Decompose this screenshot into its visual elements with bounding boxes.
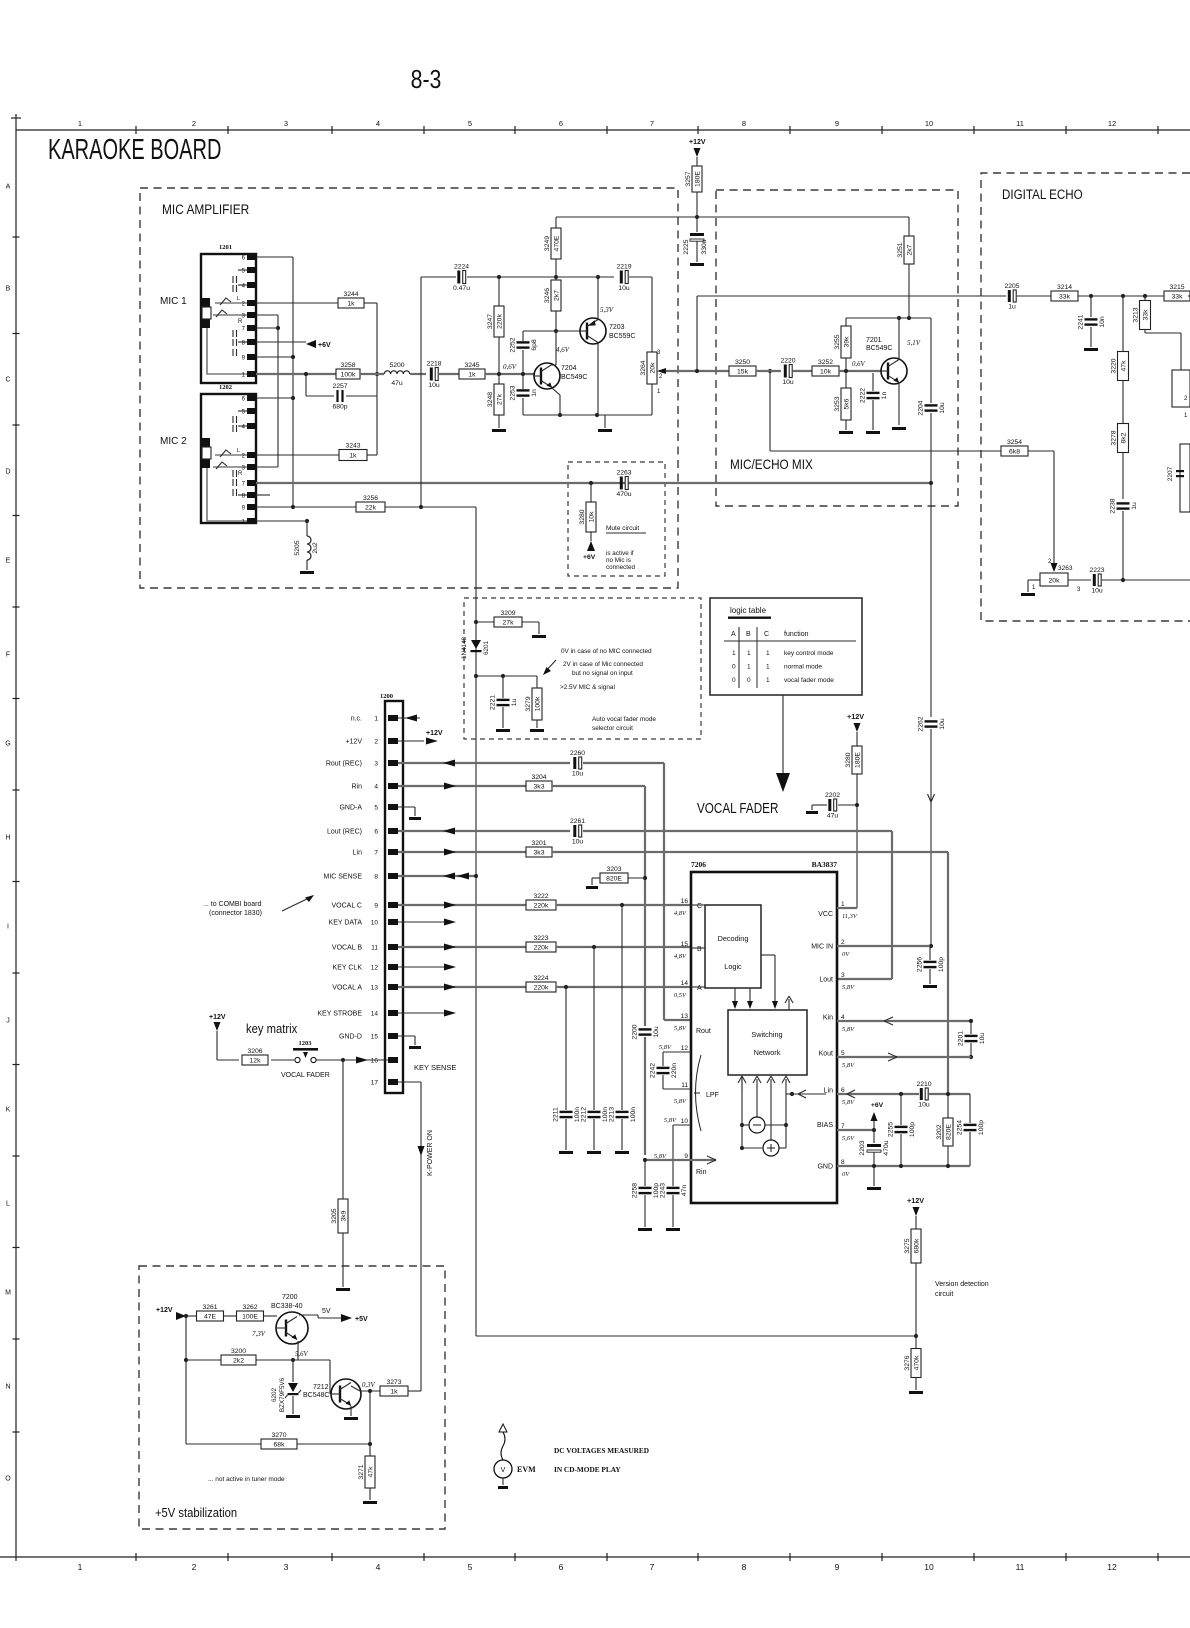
svg-text:M: M <box>5 1290 11 1297</box>
svg-text:E: E <box>6 558 11 565</box>
svg-text:1: 1 <box>766 650 770 657</box>
svg-text:2u2: 2u2 <box>312 542 319 554</box>
svg-text:I: I <box>7 924 9 931</box>
svg-text:9: 9 <box>835 1562 840 1572</box>
svg-text:Rout: Rout <box>696 1028 711 1035</box>
svg-text:V: V <box>501 1467 506 1474</box>
svg-text:3202: 3202 <box>936 1124 943 1139</box>
svg-text:BIAS: BIAS <box>817 1122 833 1129</box>
svg-text:220k: 220k <box>534 945 549 952</box>
svg-text:8: 8 <box>742 119 746 128</box>
svg-text:3275: 3275 <box>904 1238 911 1253</box>
svg-text:2201: 2201 <box>958 1031 965 1046</box>
svg-text:L: L <box>237 296 240 302</box>
svg-text:2253: 2253 <box>510 385 517 400</box>
svg-text:+6V: +6V <box>871 1102 884 1109</box>
svg-text:11: 11 <box>681 1082 688 1089</box>
svg-text:3244: 3244 <box>343 291 358 298</box>
svg-text:+12V: +12V <box>689 139 706 146</box>
svg-text:1u: 1u <box>1008 304 1016 311</box>
svg-text:9: 9 <box>835 119 839 128</box>
svg-text:9: 9 <box>242 356 246 362</box>
svg-text:10n: 10n <box>1099 316 1106 328</box>
svg-text:vocal fader mode: vocal fader mode <box>784 677 834 684</box>
svg-text:180E: 180E <box>854 752 861 768</box>
svg-text:6: 6 <box>559 119 563 128</box>
svg-text:0: 0 <box>732 677 736 684</box>
svg-text:KEY CLK: KEY CLK <box>333 965 363 972</box>
svg-text:6: 6 <box>242 397 246 403</box>
svg-text:7204: 7204 <box>561 365 577 372</box>
svg-text:2241: 2241 <box>1078 314 1085 329</box>
svg-text:1k: 1k <box>347 301 355 308</box>
svg-text:3273: 3273 <box>386 1379 401 1386</box>
svg-text:is active if: is active if <box>606 550 634 557</box>
svg-text:KEY SENSE: KEY SENSE <box>414 1063 456 1072</box>
svg-text:47k: 47k <box>1120 360 1127 372</box>
svg-text:3224: 3224 <box>533 975 548 982</box>
svg-text:17: 17 <box>371 1080 379 1087</box>
svg-text:6: 6 <box>242 256 246 262</box>
svg-text:10u: 10u <box>572 839 584 846</box>
svg-text:5: 5 <box>468 119 472 128</box>
svg-text:3204: 3204 <box>531 774 546 781</box>
svg-text:5,6V: 5,6V <box>295 1351 308 1358</box>
svg-text:9: 9 <box>242 506 246 512</box>
svg-text:3206: 3206 <box>247 1048 262 1055</box>
svg-text:1k: 1k <box>468 372 476 379</box>
svg-text:2242: 2242 <box>650 1063 657 1078</box>
svg-text:Rin: Rin <box>696 1169 707 1176</box>
svg-text:MIC AMPLIFIER: MIC AMPLIFIER <box>162 201 249 217</box>
svg-text:0V: 0V <box>842 951 850 958</box>
svg-text:7: 7 <box>242 482 246 488</box>
svg-text:2220: 2220 <box>780 358 795 365</box>
svg-text:1: 1 <box>747 664 751 671</box>
svg-text:+12V: +12V <box>847 712 864 721</box>
svg-text:1: 1 <box>1184 413 1188 419</box>
svg-text:68k: 68k <box>274 1442 286 1449</box>
svg-text:1u: 1u <box>1131 502 1138 510</box>
svg-text:2221: 2221 <box>490 695 497 710</box>
svg-text:2224: 2224 <box>454 264 469 271</box>
svg-text:15: 15 <box>681 941 689 948</box>
svg-text:100E: 100E <box>242 1314 258 1321</box>
svg-text:2: 2 <box>192 1562 197 1572</box>
svg-text:1k: 1k <box>390 1389 398 1396</box>
svg-text:0: 0 <box>732 664 736 671</box>
svg-text:BA3837: BA3837 <box>812 860 838 869</box>
svg-text:Kout: Kout <box>819 1051 833 1058</box>
svg-text:2213: 2213 <box>609 1107 616 1122</box>
svg-text:... not active in tuner mode: ... not active in tuner mode <box>208 1476 285 1483</box>
svg-text:+12V: +12V <box>345 739 362 746</box>
svg-text:470u: 470u <box>616 491 631 498</box>
svg-text:5,8V: 5,8V <box>664 1117 677 1124</box>
svg-text:K: K <box>6 1107 11 1114</box>
svg-text:11: 11 <box>1016 1562 1025 1572</box>
svg-text:3243: 3243 <box>345 443 360 450</box>
svg-text:8: 8 <box>374 874 378 881</box>
svg-text:VOCAL C: VOCAL C <box>332 903 362 910</box>
svg-text:+12V: +12V <box>907 1196 924 1205</box>
svg-text:2255: 2255 <box>888 1122 895 1137</box>
svg-text:0: 0 <box>747 677 751 684</box>
svg-text:2262: 2262 <box>918 716 925 731</box>
svg-text:Auto vocal fader mode: Auto vocal fader mode <box>592 716 656 723</box>
svg-text:6: 6 <box>559 1562 564 1572</box>
svg-text:3k3: 3k3 <box>534 850 545 857</box>
svg-text:470u: 470u <box>883 1140 890 1155</box>
svg-text:33k: 33k <box>1059 294 1071 301</box>
svg-text:1200: 1200 <box>380 693 393 700</box>
svg-text:2k2: 2k2 <box>233 1358 244 1365</box>
svg-text:2204: 2204 <box>918 400 925 415</box>
svg-text:12: 12 <box>681 1045 689 1052</box>
svg-text:BZX79F5V6: BZX79F5V6 <box>279 1377 286 1412</box>
svg-text:3: 3 <box>284 119 288 128</box>
svg-text:3k3: 3k3 <box>534 784 545 791</box>
svg-text:5: 5 <box>374 805 378 812</box>
svg-text:Kin: Kin <box>823 1015 833 1022</box>
svg-text:1: 1 <box>766 664 770 671</box>
svg-text:EVM: EVM <box>517 1465 536 1474</box>
svg-text:3279: 3279 <box>525 696 532 711</box>
svg-text:220k: 220k <box>496 314 503 329</box>
svg-text:100p: 100p <box>978 1120 985 1135</box>
svg-text:5,1V: 5,1V <box>907 339 921 347</box>
svg-text:2218: 2218 <box>426 361 441 368</box>
svg-text:10u: 10u <box>653 1026 660 1038</box>
svg-text:BC549C: BC549C <box>561 374 587 381</box>
svg-text:3270: 3270 <box>271 1432 286 1439</box>
svg-text:4,6V: 4,6V <box>556 346 570 354</box>
svg-text:470E: 470E <box>553 235 560 251</box>
svg-text:4: 4 <box>376 119 380 128</box>
svg-text:4: 4 <box>242 284 246 290</box>
svg-text:2k7: 2k7 <box>553 290 560 301</box>
svg-text:3247: 3247 <box>487 314 494 329</box>
svg-text:GND-A: GND-A <box>339 805 362 812</box>
svg-text:10u: 10u <box>428 382 440 389</box>
svg-text:+6V: +6V <box>583 554 596 561</box>
svg-text:10u: 10u <box>939 402 946 414</box>
svg-text:7: 7 <box>242 327 246 333</box>
svg-text:12: 12 <box>1108 119 1116 128</box>
svg-text:logic table: logic table <box>730 606 767 615</box>
svg-text:7200: 7200 <box>282 1294 298 1301</box>
svg-text:VOCAL FADER: VOCAL FADER <box>281 1072 330 1079</box>
svg-text:BC559C: BC559C <box>609 333 635 340</box>
svg-text:GND-D: GND-D <box>339 1034 362 1041</box>
svg-text:5205: 5205 <box>294 540 301 555</box>
svg-text:14: 14 <box>681 980 689 987</box>
svg-text:+5V: +5V <box>355 1316 368 1323</box>
svg-text:2210: 2210 <box>916 1081 931 1088</box>
svg-text:8k2: 8k2 <box>1120 432 1127 443</box>
svg-text:2225: 2225 <box>683 239 690 254</box>
svg-text:22k: 22k <box>365 505 377 512</box>
svg-text:1: 1 <box>1032 585 1036 591</box>
svg-text:27k: 27k <box>503 620 515 627</box>
svg-text:680k: 680k <box>913 1238 920 1253</box>
svg-text:6202: 6202 <box>271 1388 278 1403</box>
svg-text:IN CD-MODE PLAY: IN CD-MODE PLAY <box>554 1465 621 1474</box>
svg-text:2: 2 <box>192 119 196 128</box>
svg-text:C: C <box>764 631 769 638</box>
svg-text:47E: 47E <box>204 1314 217 1321</box>
svg-text:A: A <box>697 985 702 992</box>
svg-text:10k: 10k <box>588 511 595 523</box>
svg-text:10u: 10u <box>1091 588 1103 595</box>
svg-text:33k: 33k <box>1172 294 1184 301</box>
svg-text:680p: 680p <box>332 404 347 411</box>
svg-text:3246: 3246 <box>544 288 551 303</box>
svg-text:3209: 3209 <box>500 610 515 617</box>
svg-text:5,8V: 5,8V <box>659 1044 672 1051</box>
svg-text:2261: 2261 <box>570 818 585 825</box>
svg-text:2200: 2200 <box>632 1024 639 1039</box>
svg-text:VOCAL A: VOCAL A <box>332 985 362 992</box>
svg-text:3222: 3222 <box>533 893 548 900</box>
svg-text:N: N <box>5 1384 10 1391</box>
svg-text:3203: 3203 <box>606 866 621 873</box>
svg-text:3254: 3254 <box>1007 439 1022 446</box>
svg-text:B: B <box>746 631 751 638</box>
svg-text:11: 11 <box>1016 119 1024 128</box>
svg-text:3215: 3215 <box>1169 284 1184 291</box>
svg-text:VCC: VCC <box>818 911 833 918</box>
svg-text:3214: 3214 <box>1057 284 1072 291</box>
svg-text:13: 13 <box>681 1013 689 1020</box>
svg-text:+5V stabilization: +5V stabilization <box>155 1505 237 1520</box>
svg-text:Decoding: Decoding <box>718 934 749 943</box>
svg-text:1k: 1k <box>349 453 357 460</box>
svg-text:3276: 3276 <box>904 1355 911 1370</box>
svg-text:10u: 10u <box>918 1102 930 1109</box>
svg-text:3255: 3255 <box>834 334 841 349</box>
svg-text:3200: 3200 <box>231 1348 246 1355</box>
svg-text:7203: 7203 <box>609 324 625 331</box>
svg-text:2263: 2263 <box>616 470 631 477</box>
svg-text:7: 7 <box>650 119 654 128</box>
svg-text:MIC 1: MIC 1 <box>160 296 187 307</box>
svg-text:L: L <box>6 1201 10 1208</box>
svg-text:6k8: 6k8 <box>1009 449 1020 456</box>
svg-text:100p: 100p <box>653 1183 660 1198</box>
svg-text:3250: 3250 <box>735 359 750 366</box>
svg-text:3223: 3223 <box>533 935 548 942</box>
svg-text:Version detection: Version detection <box>935 1281 989 1288</box>
svg-text:0,6V: 0,6V <box>503 363 517 371</box>
svg-text:12: 12 <box>371 965 379 972</box>
svg-text:4: 4 <box>376 1562 381 1572</box>
svg-text:function: function <box>784 631 809 638</box>
svg-text:820E: 820E <box>606 876 622 883</box>
svg-text:KEY STROBE: KEY STROBE <box>317 1011 362 1018</box>
svg-text:10: 10 <box>924 1562 934 1572</box>
svg-text:2212: 2212 <box>581 1107 588 1122</box>
svg-text:3245: 3245 <box>464 362 479 369</box>
svg-text:39k: 39k <box>843 336 850 348</box>
svg-text:MIC/ECHO MIX: MIC/ECHO MIX <box>730 457 813 472</box>
svg-text:4: 4 <box>374 784 378 791</box>
svg-text:2: 2 <box>659 374 663 380</box>
svg-text:0,3V: 0,3V <box>362 1382 375 1389</box>
svg-text:6201: 6201 <box>483 641 490 656</box>
svg-text:1u: 1u <box>511 699 518 707</box>
svg-text:3249: 3249 <box>544 236 551 251</box>
svg-text:5,8V: 5,8V <box>842 1062 855 1069</box>
svg-text:10: 10 <box>681 1118 689 1125</box>
svg-text:470k: 470k <box>913 1355 920 1370</box>
svg-text:Lout (REC): Lout (REC) <box>327 829 362 836</box>
svg-text:11,3V: 11,3V <box>842 913 858 920</box>
svg-text:5: 5 <box>468 1562 473 1572</box>
svg-text:MIC SENSE: MIC SENSE <box>323 874 362 881</box>
svg-text:3280: 3280 <box>845 752 852 767</box>
svg-text:0,5V: 0,5V <box>674 992 687 999</box>
svg-text:3264: 3264 <box>640 360 647 375</box>
svg-text:L: L <box>237 448 240 454</box>
svg-text:10u: 10u <box>572 771 584 778</box>
svg-text:2243: 2243 <box>660 1183 667 1198</box>
svg-text:47k: 47k <box>367 1466 374 1478</box>
svg-text:7206: 7206 <box>691 860 706 869</box>
svg-text:5: 5 <box>242 410 246 416</box>
svg-text:16: 16 <box>681 898 689 905</box>
svg-text:3213: 3213 <box>1133 307 1140 322</box>
svg-text:5,8V: 5,8V <box>842 1099 855 1106</box>
svg-text:0,6V: 0,6V <box>852 361 865 368</box>
svg-text:8: 8 <box>242 494 246 500</box>
svg-text:3256: 3256 <box>363 495 378 502</box>
svg-text:5,8V: 5,8V <box>674 1025 687 1032</box>
svg-text:1n: 1n <box>881 392 888 400</box>
svg-text:220n: 220n <box>671 1063 678 1078</box>
svg-text:Network: Network <box>754 1048 781 1057</box>
svg-text:180E: 180E <box>694 171 701 187</box>
svg-text:D: D <box>5 469 10 476</box>
svg-text:220k: 220k <box>534 903 549 910</box>
svg-text:1: 1 <box>657 389 661 395</box>
svg-text:12k: 12k <box>250 1058 262 1065</box>
svg-text:3205: 3205 <box>331 1208 338 1223</box>
svg-text:+12V: +12V <box>209 1014 226 1021</box>
svg-text:3263: 3263 <box>1058 565 1073 572</box>
svg-text:1202: 1202 <box>219 384 232 391</box>
svg-text:but no signal on input: but no signal on input <box>572 670 633 677</box>
svg-text:220k: 220k <box>534 985 549 992</box>
svg-text:4: 4 <box>242 425 246 431</box>
svg-text:no Mic is: no Mic is <box>606 557 631 564</box>
svg-text:+12V: +12V <box>426 730 443 737</box>
svg-text:C: C <box>697 903 702 910</box>
svg-text:BC548C: BC548C <box>303 1392 329 1399</box>
svg-text:R: R <box>238 319 243 325</box>
svg-text:100p: 100p <box>909 1122 916 1137</box>
svg-text:Logic: Logic <box>724 962 742 971</box>
svg-text:8: 8 <box>242 341 246 347</box>
svg-text:2223: 2223 <box>1089 567 1104 574</box>
svg-text:5,8V: 5,8V <box>842 1026 855 1033</box>
svg-text:10k: 10k <box>820 369 832 376</box>
svg-text:Rin: Rin <box>351 784 362 791</box>
svg-text:3253: 3253 <box>834 396 841 411</box>
svg-text:Switching: Switching <box>751 1030 782 1039</box>
svg-text:2254: 2254 <box>957 1120 964 1135</box>
svg-text:MIC 2: MIC 2 <box>160 436 187 447</box>
svg-text:J: J <box>6 1018 10 1025</box>
svg-text:2211: 2211 <box>553 1107 560 1122</box>
svg-text:3: 3 <box>284 1562 289 1572</box>
svg-text:330u: 330u <box>701 239 708 254</box>
svg-text:BC338-40: BC338-40 <box>271 1303 303 1310</box>
svg-text:2k7: 2k7 <box>906 244 913 255</box>
svg-text:10u: 10u <box>618 285 630 292</box>
svg-text:1: 1 <box>374 716 378 723</box>
svg-text:1n: 1n <box>531 389 538 397</box>
svg-text:7201: 7201 <box>866 337 882 344</box>
svg-text:G: G <box>5 741 10 748</box>
svg-text:0V: 0V <box>842 1171 850 1178</box>
svg-text:5200: 5200 <box>389 362 404 369</box>
svg-text:5: 5 <box>242 269 246 275</box>
svg-text:47u: 47u <box>391 380 403 387</box>
svg-text:10: 10 <box>371 920 379 927</box>
svg-text:5,8V: 5,8V <box>674 1098 687 1105</box>
svg-text:2222: 2222 <box>860 388 867 403</box>
svg-text:GND: GND <box>817 1164 833 1171</box>
svg-text:R: R <box>238 471 243 477</box>
svg-text:B: B <box>6 286 11 293</box>
svg-text:100n: 100n <box>630 1107 637 1122</box>
svg-text:2205: 2205 <box>1004 283 1019 290</box>
svg-text:3: 3 <box>657 350 661 356</box>
svg-text:20k: 20k <box>649 362 656 374</box>
svg-text:0V in case of no MIC connected: 0V in case of no MIC connected <box>561 648 652 655</box>
svg-text:VOCAL B: VOCAL B <box>332 945 362 952</box>
svg-text:2260: 2260 <box>570 750 585 757</box>
svg-text:H: H <box>5 835 10 842</box>
svg-text:O: O <box>5 1476 11 1483</box>
svg-text:7: 7 <box>374 850 378 857</box>
svg-text:10u: 10u <box>782 379 794 386</box>
svg-text:connected: connected <box>606 564 636 571</box>
svg-text:1: 1 <box>78 1562 83 1572</box>
svg-text:Mute circuit: Mute circuit <box>606 525 639 532</box>
svg-text:3251: 3251 <box>897 242 904 257</box>
svg-text:1: 1 <box>78 119 82 128</box>
svg-text:C: C <box>5 377 10 384</box>
svg-text:key matrix: key matrix <box>246 1021 297 1036</box>
svg-text:8: 8 <box>742 1562 747 1572</box>
svg-text:7: 7 <box>650 1562 655 1572</box>
svg-text:13: 13 <box>371 985 379 992</box>
svg-text:14: 14 <box>371 1011 379 1018</box>
svg-text:5k6: 5k6 <box>843 398 850 409</box>
svg-text:MIC IN: MIC IN <box>811 944 833 951</box>
svg-text:8-3: 8-3 <box>411 65 442 95</box>
svg-text:3: 3 <box>374 761 378 768</box>
svg-text:BC549C: BC549C <box>866 345 892 352</box>
svg-text:1: 1 <box>732 650 736 657</box>
svg-text:2258: 2258 <box>632 1183 639 1198</box>
svg-text:3261: 3261 <box>202 1304 217 1311</box>
svg-text:2238: 2238 <box>1110 498 1117 513</box>
svg-text:3271: 3271 <box>358 1464 365 1479</box>
svg-text:3280: 3280 <box>579 509 586 524</box>
